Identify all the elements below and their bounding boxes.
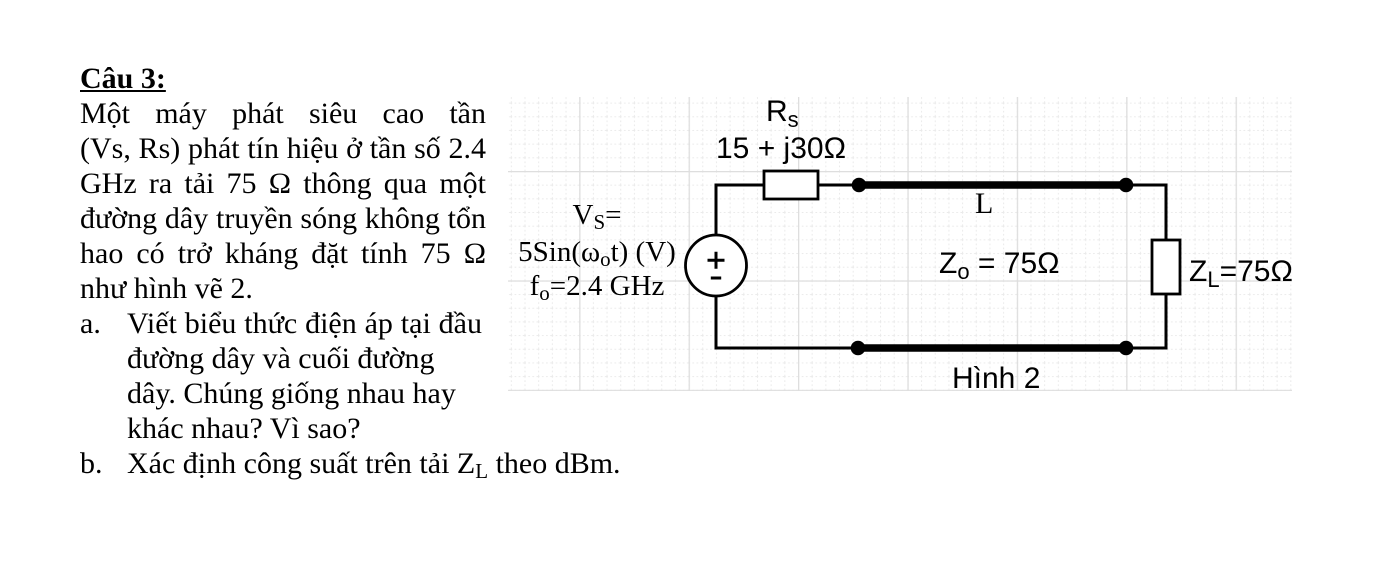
load resistor ZL — [1152, 240, 1180, 294]
graph paper background (decorative) — [508, 97, 1292, 391]
svg-text:ZL=75Ω: ZL=75Ω — [1189, 255, 1293, 292]
transmission line L: top conductor — [859, 181, 1126, 189]
junction: transmission line input (bottom) — [851, 341, 866, 356]
svg-text:L: L — [975, 187, 993, 220]
voltage source VS (sinusoidal source) — [686, 235, 747, 296]
wire: line input (bottom) to source bottom lead — [716, 295, 858, 348]
wire: source top lead to resistor RS — [716, 185, 764, 237]
wire: line output to load ZL — [1126, 185, 1166, 240]
transmission line L: bottom conductor — [858, 344, 1126, 352]
junction: transmission line input (top) — [852, 178, 867, 193]
junction: transmission line output (top) — [1119, 178, 1134, 193]
junction: transmission line output (bottom) — [1119, 341, 1134, 356]
resistor RS (series source impedance) — [764, 171, 818, 199]
svg-text:Zo = 75Ω: Zo = 75Ω — [939, 247, 1060, 284]
wire: load ZL bottom lead to line output (bottom) — [1126, 294, 1166, 348]
svg-text:fo=2.4 GHz: fo=2.4 GHz — [530, 270, 665, 305]
svg-text:Hình 2: Hình 2 — [952, 362, 1040, 395]
svg-text:5Sin(ωot) (V): 5Sin(ωot) (V) — [518, 236, 676, 271]
wire: resistor RS to line input node — [818, 184, 859, 187]
svg-text:15 + j30Ω: 15 + j30Ω — [716, 132, 846, 165]
left problem text column — [80, 61, 486, 484]
label VS = 5Sin(ω0t) (V), f0 = 2.4 GHz — [518, 199, 676, 305]
